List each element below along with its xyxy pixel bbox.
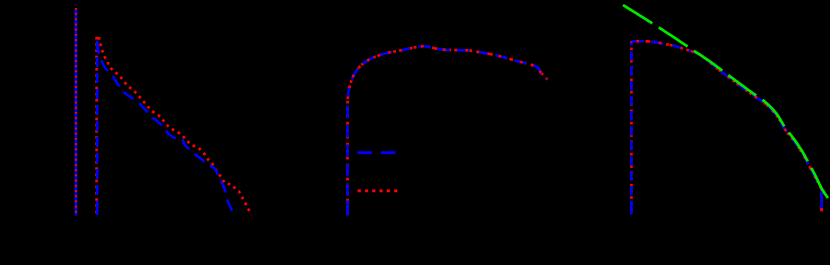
- panel2 red dots sparse overlay: [348, 46, 548, 104]
- panel2 vertical blue solid lower section: [346, 201, 349, 216]
- panel3 kink red dot: [820, 188, 823, 191]
- panel1 red dotted curve: [99, 37, 251, 215]
- panel3 vertical red dotted (under): [630, 41, 633, 214]
- panel3 vertical blue dashed (over): [630, 43, 633, 215]
- legend red dotted sample: [358, 189, 398, 192]
- legend blue dashed sample: [358, 151, 396, 154]
- spike line blue base: [75, 10, 78, 216]
- panel3 green dashed model curve: [623, 5, 828, 198]
- asymptote blue solid lower section: [96, 201, 99, 215]
- panel3 right vertical blue solid section: [820, 193, 823, 212]
- panel2 blue dashed curve (over): [348, 46, 548, 215]
- panel3 blue dashed curve (over): [631, 41, 821, 211]
- panel3 vertical blue solid lower section: [630, 201, 633, 215]
- panel1 blue dashed curve: [97, 42, 232, 213]
- panel3 red dotted curve (under): [631, 41, 821, 211]
- asymptote blue dashed (over): [96, 41, 99, 215]
- panel3 red dots sparse overlay: [631, 41, 821, 211]
- asymptote red dotted (under): [95, 37, 98, 215]
- spike line red dots: [75, 8, 77, 216]
- panel2 red dotted curve (under): [348, 46, 548, 215]
- panel3 right vertical bottom red dot: [820, 209, 823, 212]
